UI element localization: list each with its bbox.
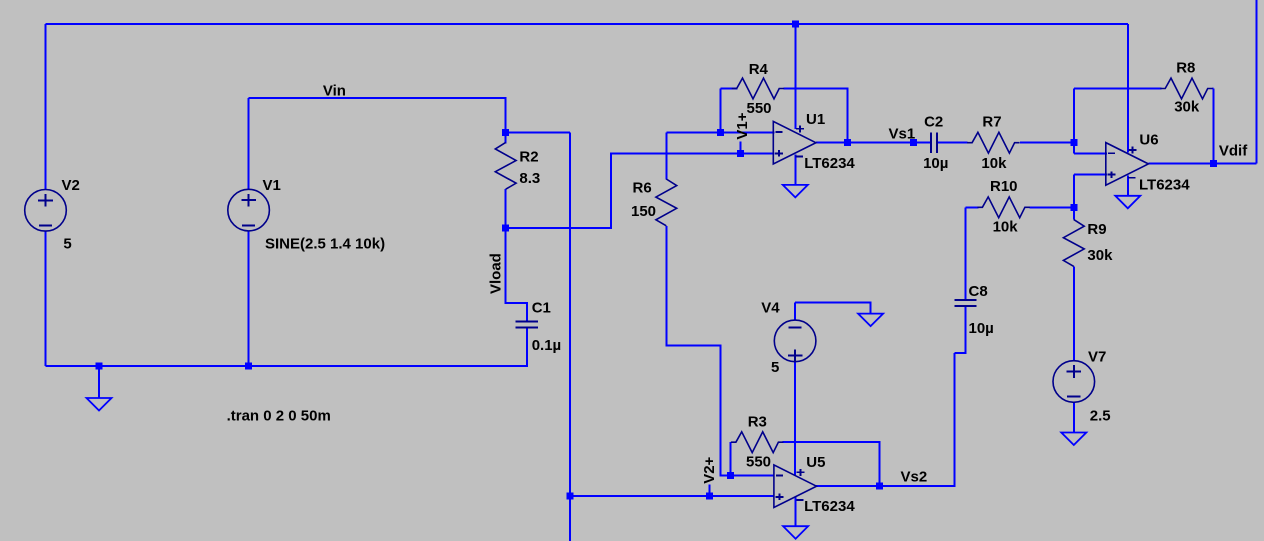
- svg-text:V2: V2: [62, 177, 80, 194]
- svg-text:Vin: Vin: [323, 83, 346, 100]
- svg-text:R10: R10: [990, 178, 1018, 195]
- svg-text:R8: R8: [1176, 60, 1195, 77]
- svg-text:V4: V4: [761, 299, 780, 316]
- svg-text:SINE(2.5 1.4 10k): SINE(2.5 1.4 10k): [265, 236, 385, 253]
- svg-text:150: 150: [631, 203, 656, 220]
- svg-text:10k: 10k: [993, 219, 1019, 236]
- svg-text:5: 5: [771, 359, 779, 376]
- svg-text:Vdif: Vdif: [1219, 143, 1248, 160]
- svg-text:2.5: 2.5: [1090, 407, 1111, 424]
- svg-text:Vs1: Vs1: [889, 126, 916, 143]
- svg-text:R4: R4: [749, 61, 769, 78]
- svg-text:R6: R6: [633, 180, 652, 197]
- svg-text:8.3: 8.3: [519, 170, 540, 187]
- svg-text:V1: V1: [263, 177, 281, 194]
- svg-text:.tran 0 2 0 50m: .tran 0 2 0 50m: [227, 408, 331, 425]
- svg-text:30k: 30k: [1174, 99, 1200, 116]
- svg-text:10µ: 10µ: [923, 155, 948, 172]
- svg-text:C8: C8: [969, 283, 988, 300]
- svg-text:U6: U6: [1139, 131, 1158, 148]
- svg-text:10k: 10k: [981, 155, 1007, 172]
- svg-text:Vload: Vload: [487, 253, 504, 294]
- svg-text:U5: U5: [806, 454, 825, 471]
- svg-text:LT6234: LT6234: [1139, 176, 1190, 193]
- svg-text:LT6234: LT6234: [804, 155, 855, 172]
- svg-text:V7: V7: [1088, 349, 1106, 366]
- svg-text:Vs2: Vs2: [901, 468, 928, 485]
- svg-text:R3: R3: [748, 414, 767, 431]
- svg-text:550: 550: [746, 453, 771, 470]
- svg-text:V2+: V2+: [701, 456, 718, 483]
- svg-text:C2: C2: [924, 114, 943, 131]
- svg-text:R2: R2: [519, 149, 538, 166]
- svg-text:5: 5: [63, 236, 71, 253]
- svg-text:0.1µ: 0.1µ: [532, 337, 562, 354]
- svg-text:U1: U1: [806, 111, 825, 128]
- svg-text:C1: C1: [532, 299, 551, 316]
- svg-text:30k: 30k: [1087, 247, 1113, 264]
- svg-text:10µ: 10µ: [969, 320, 994, 337]
- svg-text:550: 550: [747, 100, 772, 117]
- svg-text:R9: R9: [1087, 221, 1106, 238]
- svg-text:R7: R7: [982, 114, 1001, 131]
- svg-text:LT6234: LT6234: [804, 498, 855, 515]
